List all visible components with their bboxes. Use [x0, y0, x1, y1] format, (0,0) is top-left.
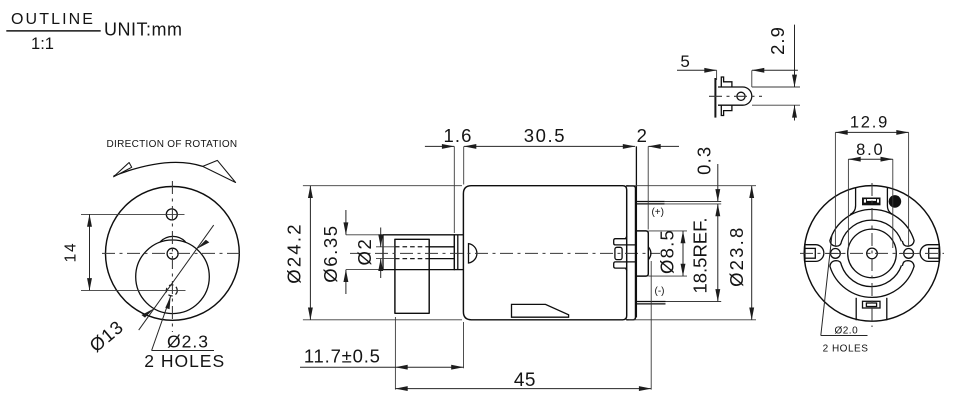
leader line for Ø2.0	[821, 236, 832, 336]
dim Ø24.2 extension bottom	[303, 319, 462, 321]
dim 11.7 extension at shaft tip	[394, 317, 396, 390]
front view: vertical centerline	[171, 181, 173, 332]
rear view: horizontal centerline	[800, 252, 944, 254]
rear view: bottom slot inner	[866, 303, 876, 307]
rear view: left D tab chord	[804, 244, 806, 263]
front view: bottom mounting hole (hidden)	[166, 285, 177, 296]
svg-text:30.5: 30.5	[524, 125, 566, 146]
svg-text:(-): (-)	[655, 286, 665, 297]
dim Ø23.8 extension bottom	[629, 319, 757, 321]
dim 5 extension left	[716, 70, 718, 80]
Ø2.3 underline	[152, 350, 214, 352]
side view: shaft dome inside body	[469, 244, 477, 263]
dim Ø8.5 extension bottom	[648, 275, 687, 277]
dim 11.7 arrows	[395, 366, 463, 368]
svg-text:0.3: 0.3	[694, 146, 715, 175]
side view: bushing left end cap	[382, 235, 384, 270]
dim 12.9 extension left	[834, 132, 836, 247]
rear view: right D tab chord	[938, 244, 940, 263]
rear view: window wall top-right	[887, 188, 893, 215]
front view: horizontal centerline	[102, 252, 243, 254]
rear view: screw hole right	[904, 249, 914, 259]
dim 2.9 extension top	[752, 86, 800, 88]
dim extension at boss right face	[647, 146, 649, 229]
side view: minus terminal top edge	[636, 301, 666, 303]
dim Ø6.35 extension bottom	[346, 269, 383, 271]
side view: minus terminal bottom edge	[636, 303, 666, 305]
detail view: crimp step lower	[721, 105, 732, 115]
rear view: claw bottom-right	[903, 261, 915, 267]
svg-text:12.9: 12.9	[850, 114, 889, 132]
side view: shaft bottom edge solid	[429, 258, 454, 260]
dim extension at body left	[463, 146, 465, 184]
rear view: inner window arc top	[842, 220, 902, 241]
svg-text:1.6: 1.6	[443, 125, 472, 146]
rear view: claw bottom-left	[830, 261, 842, 267]
dim 8.0 extension right	[892, 159, 894, 248]
dim 14 extension top	[81, 213, 185, 215]
side view: motor body	[463, 186, 626, 320]
front view: top mounting hole	[166, 209, 177, 220]
side view: flange bottom edge	[454, 269, 463, 271]
dim Ø23.8 line	[751, 186, 753, 320]
rear view: screw hole right cross	[899, 252, 918, 254]
svg-text:Ø2.3: Ø2.3	[167, 332, 209, 352]
dim 8.0 extension left	[847, 159, 849, 248]
dim Ø6.35 lower arrow	[345, 270, 347, 294]
side view: endcap inner face line	[635, 146, 637, 317]
detail view: endcap wall line	[714, 78, 716, 118]
dim 0.3 extension top surface	[665, 201, 722, 203]
dim Ø8.5 line	[682, 231, 684, 276]
Ø2.3 arrowhead	[165, 296, 170, 309]
side view: shaft top edge solid	[429, 246, 454, 248]
dim 0.3 arrow	[717, 164, 719, 201]
rear view: claw top-right	[903, 241, 915, 247]
detail view: terminal centerline	[709, 95, 762, 97]
dim 8.0 line	[848, 158, 892, 160]
leader line for Ø2.3	[152, 296, 171, 350]
svg-text:2 HOLES: 2 HOLES	[144, 351, 225, 371]
rear view: claw top-left	[830, 241, 842, 247]
dim 11.7 line	[300, 366, 395, 368]
dim Ø24.2 line	[309, 186, 311, 320]
dim 11.7 extension at body left	[463, 322, 465, 368]
svg-text:UNIT:mm: UNIT:mm	[104, 20, 183, 40]
rear view: screw hole left cross	[826, 252, 845, 254]
front view: rotation arrow arc	[114, 162, 203, 176]
side view: plus terminal top edge	[636, 201, 665, 203]
svg-text:Ø8.5: Ø8.5	[657, 229, 678, 274]
svg-text:11.7±0.5: 11.7±0.5	[304, 346, 381, 367]
dim 5 extension right	[751, 70, 753, 87]
front view: motor outer circle	[105, 187, 239, 321]
rear view: top slot white notch left	[864, 199, 866, 202]
svg-text:Ø6.35: Ø6.35	[320, 224, 341, 282]
side view: front flange seam	[457, 235, 459, 270]
svg-text:Ø23.8: Ø23.8	[726, 225, 747, 286]
dim 45 extension right	[650, 261, 652, 390]
dim 12.9 line	[835, 131, 908, 133]
detail view: crimp step upper	[721, 77, 732, 87]
side view: front flange left face	[453, 235, 455, 270]
side view: main centerline	[350, 252, 660, 254]
side view: shaft bottom edge (hidden in weight)	[395, 258, 429, 260]
dim 2 outside arrow	[648, 145, 679, 147]
rear view: right D tab	[920, 245, 939, 262]
title underline	[6, 30, 100, 32]
side view: rear bearing bracket upper	[614, 236, 636, 245]
rear view: right D tab box	[929, 248, 939, 258]
svg-text:(+): (+)	[651, 207, 664, 218]
front view: shaft center hole	[167, 248, 178, 259]
dim Ø23.8 extension top	[629, 185, 757, 187]
rear view: ring bottom arc	[830, 266, 914, 297]
dim 1.6 30.5 2 extension at flange left	[453, 146, 455, 233]
side view: flange top edge	[454, 234, 463, 236]
dim 2.9 extension bottom	[752, 104, 800, 106]
side view: rear bearing box	[615, 247, 622, 259]
svg-text:2: 2	[637, 125, 648, 146]
dim Ø2 lower arrow	[380, 259, 382, 278]
rear view: screw hole left	[831, 249, 841, 259]
dim Ø8.5 extension top	[648, 230, 687, 232]
dim Ø6.35 extension top	[346, 234, 383, 236]
rear view: top slot white notch right	[877, 199, 879, 202]
front view: rotation arrow right head	[203, 160, 236, 182]
rear view: left D tab box	[805, 248, 815, 258]
rear view: vertical centerline	[871, 183, 873, 327]
dim 2.9 upper arrow	[794, 25, 796, 87]
dim 18.5REF line	[717, 204, 719, 301]
rear view: top slot black	[862, 198, 881, 206]
dim 2.9 lower arrow	[794, 105, 796, 120]
dim Ø6.35 upper arrow	[345, 210, 347, 235]
svg-text:18.5REF.: 18.5REF.	[689, 217, 710, 293]
svg-text:Ø13: Ø13	[85, 316, 127, 356]
dim Ø24.2 extension top	[303, 185, 462, 187]
svg-text:Ø24.2: Ø24.2	[284, 222, 305, 283]
side view: plus terminal bottom edge	[636, 203, 665, 205]
detail view: terminal hole	[737, 92, 745, 100]
side view: bearing boss	[637, 231, 649, 276]
rear view: black dot	[889, 195, 902, 208]
rear view: bottom slot outer	[863, 301, 881, 308]
rear view: bearing boss circle	[848, 229, 897, 278]
svg-text:Ø2: Ø2	[354, 238, 375, 266]
side view: eccentric weight block	[395, 239, 429, 313]
dim 12.9 extension right	[908, 132, 910, 247]
side view: bushing bottom line	[383, 269, 454, 271]
rear view: window wall bottom-left	[855, 298, 857, 321]
dim 14 line	[89, 214, 91, 290]
dim 18.5REF extension at minus terminal	[666, 301, 722, 303]
svg-text:2 HOLES: 2 HOLES	[823, 343, 869, 354]
rear view: ring top arc	[830, 209, 914, 240]
svg-text:8.0: 8.0	[856, 141, 884, 159]
svg-text:OUTLINE: OUTLINE	[11, 11, 95, 28]
svg-text:14: 14	[63, 242, 80, 263]
svg-text:Ø2.0: Ø2.0	[834, 325, 858, 336]
svg-text:45: 45	[514, 370, 536, 391]
dim Ø2 upper arrow	[380, 228, 382, 247]
front view: rotation arrow left barb	[114, 163, 132, 177]
side view: shaft top edge (hidden in weight)	[395, 246, 429, 248]
svg-text:DIRECTION OF ROTATION: DIRECTION OF ROTATION	[107, 139, 238, 150]
rear view: outer circle	[804, 186, 940, 322]
Ø13 arrowhead upper	[197, 239, 210, 249]
detail view: terminal plate	[718, 87, 752, 105]
leader line for Ø13	[139, 225, 214, 330]
Ø13 arrowhead lower	[141, 308, 154, 318]
dim 1.6 outside arrow	[425, 145, 454, 147]
Ø2.0 underline	[821, 335, 868, 337]
dim 30.5 line	[464, 145, 635, 147]
side view: bearing dome bump	[648, 247, 651, 260]
dim 5 right arrow	[752, 69, 798, 71]
svg-text:1:1: 1:1	[31, 35, 54, 53]
dim 0.3 extension bottom surface	[665, 203, 722, 205]
side view: shaft extension bottom	[376, 258, 395, 260]
side view: bottom tab	[512, 304, 569, 317]
side view: bushing top line	[383, 234, 454, 236]
side view: rear bearing bracket lower	[614, 262, 636, 271]
rear view: shaft hole	[867, 248, 878, 259]
rear view: top slot white notch middle	[867, 199, 876, 201]
side view: endcap rim	[627, 186, 636, 320]
dim 45 line	[395, 388, 651, 390]
rear view: window wall bottom-right	[886, 298, 888, 321]
rear view: left D tab	[805, 245, 824, 262]
rear view: window wall top-left	[850, 188, 856, 215]
dim 5 left arrow	[677, 69, 717, 71]
dim 14 extension bottom	[81, 289, 186, 291]
svg-text:2.9: 2.9	[767, 26, 788, 55]
side view: shaft extension top	[376, 246, 395, 248]
front view: eccentric weight circle	[136, 240, 210, 314]
rear view: inner window arc bottom	[842, 265, 902, 286]
svg-text:5: 5	[680, 52, 690, 71]
front view: weight hub arc	[160, 236, 185, 241]
